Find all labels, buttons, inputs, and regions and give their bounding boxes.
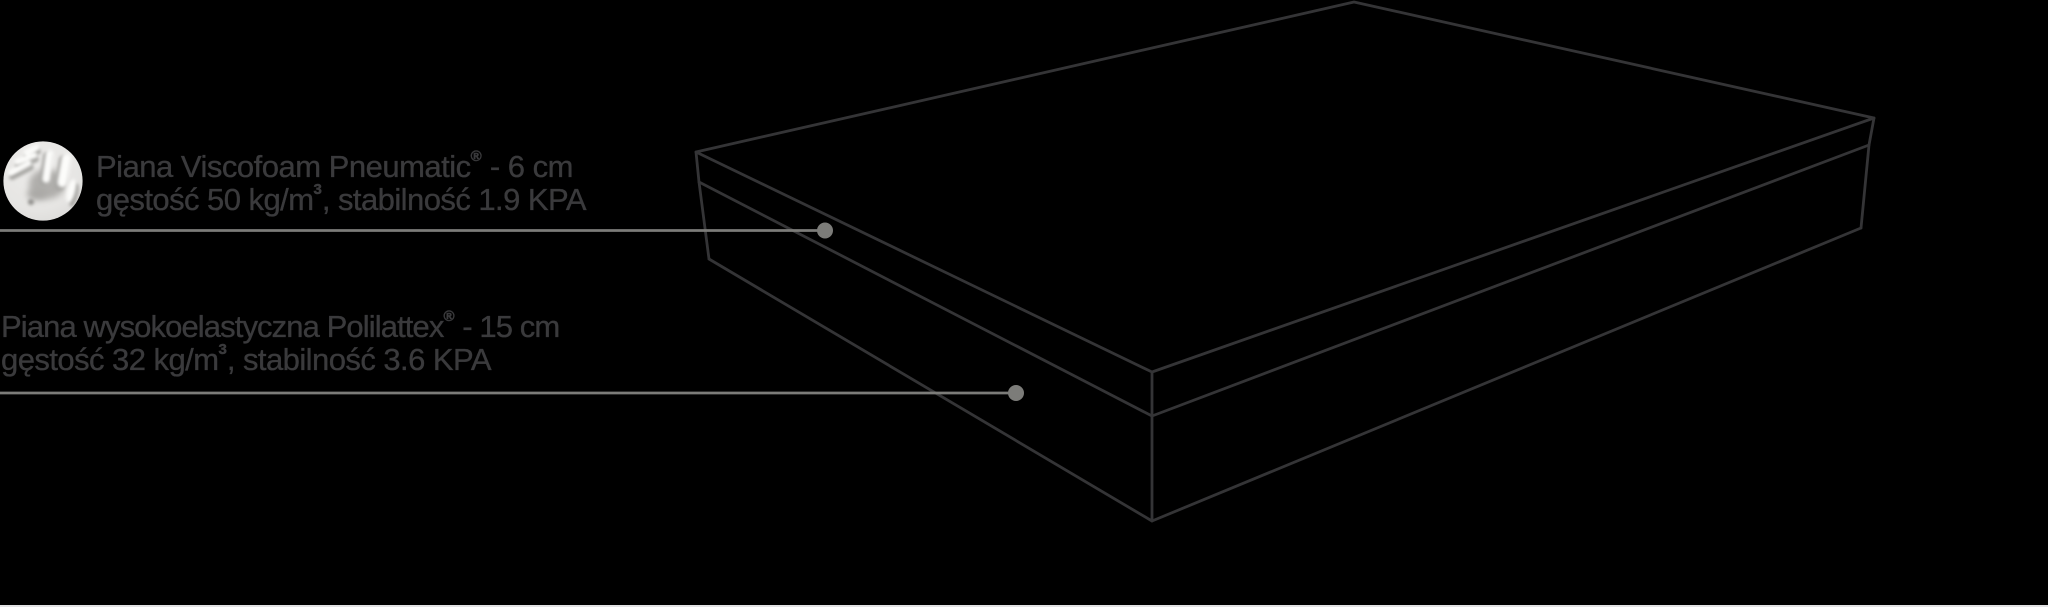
mattress top face (696, 2, 1874, 372)
mattress front corner edge (1151, 372, 1154, 521)
label 1: Piana Viscofoam (96, 150, 586, 216)
bottom page strip (0, 605, 2048, 607)
hand imprint icon (3, 141, 82, 220)
mattress bottom edge (709, 228, 1861, 521)
mattress right corner edge (1861, 118, 1874, 228)
finger shadows (8, 148, 81, 208)
dot 2 (1008, 385, 1024, 401)
layer boundary line (699, 145, 1869, 416)
finger highlights (7, 144, 78, 204)
palm shadow (29, 169, 65, 199)
dot 1 (817, 223, 833, 239)
leader line 2 (0, 392, 1016, 395)
label 2: Piana wysokoelastyczna (1, 310, 559, 376)
mattress left corner edge (696, 152, 709, 259)
leader line 1 (0, 229, 825, 232)
